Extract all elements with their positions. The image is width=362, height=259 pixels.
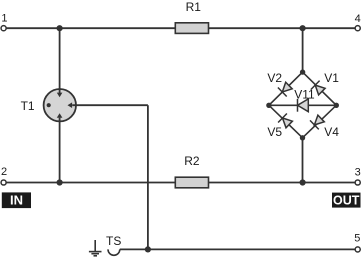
disconnect arc TS [108, 249, 120, 255]
terminal 1 [1, 26, 6, 31]
svg-text:2: 2 [1, 166, 7, 178]
junction: row2 below bridge [300, 179, 306, 185]
diode V1 [311, 81, 325, 95]
diode V5 [278, 114, 292, 128]
svg-text:TS: TS [106, 234, 121, 248]
wire row1 left: terminal 1 to R1 [6, 27, 175, 29]
node: bridge left [266, 103, 271, 108]
svg-text:T1: T1 [21, 99, 35, 113]
wire: T1 bottom electrode down to row2 junction [59, 118, 61, 183]
node: bridge right [334, 103, 339, 108]
terminal 2 [1, 180, 6, 185]
terminal 4 [355, 26, 360, 31]
svg-text:3: 3 [355, 167, 361, 179]
wire: T1 right electrode to corner [72, 104, 148, 106]
svg-text:1: 1 [1, 12, 7, 24]
junction: ground row [145, 246, 151, 252]
junction: row2 below T1 [57, 179, 63, 185]
diode V11 [298, 99, 309, 112]
svg-text:R1: R1 [186, 0, 202, 14]
svg-text:R2: R2 [184, 154, 200, 168]
diode V4 [310, 115, 324, 129]
svg-text:V2: V2 [267, 71, 282, 85]
label OUT [332, 193, 361, 208]
svg-text:5: 5 [354, 233, 360, 245]
terminal 5 [355, 247, 360, 252]
svg-text:IN: IN [10, 193, 23, 208]
wire row2 left: terminal 2 to R2 [6, 182, 175, 184]
wire: junction above T1 down to T1 top electrode [59, 28, 61, 93]
junction: row1 above bridge [300, 25, 306, 31]
node: bridge bottom [300, 135, 305, 140]
wire: bridge bottom node down to row2 junction [302, 138, 304, 183]
ground [89, 240, 102, 256]
resistor R1 [175, 23, 208, 34]
terminal 3 [355, 180, 360, 185]
node: bridge top [300, 69, 305, 74]
svg-text:V5: V5 [267, 125, 282, 139]
svg-text:OUT: OUT [333, 193, 360, 207]
wire: row1 junction down to bridge top node [302, 28, 304, 72]
wire bottom row: arc to terminal 5 [120, 248, 355, 250]
resistor R2 [175, 177, 208, 188]
wire: corner down to ground row [147, 105, 149, 249]
label IN [2, 192, 31, 208]
wire row2 right: R2 to terminal 3 [209, 182, 356, 184]
diode bridge frame [269, 72, 336, 138]
diode V2 [278, 82, 292, 96]
wire row1 right: R1 to terminal 4 [209, 27, 356, 29]
svg-text:V4: V4 [324, 125, 339, 139]
transformer T1 [44, 89, 76, 121]
junction: row1 above T1 [57, 25, 63, 31]
svg-text:V1: V1 [324, 71, 339, 85]
svg-text:4: 4 [355, 13, 361, 25]
svg-text:V11: V11 [294, 88, 315, 102]
